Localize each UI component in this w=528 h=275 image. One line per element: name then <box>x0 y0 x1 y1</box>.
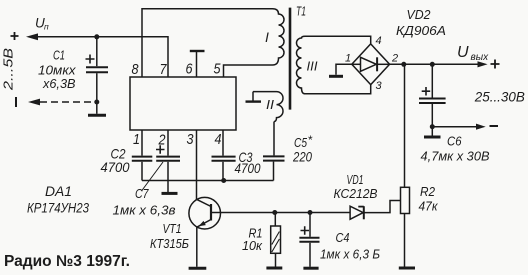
svg-text:10к: 10к <box>242 238 263 253</box>
svg-text:4: 4 <box>376 35 382 47</box>
svg-text:КС212В: КС212В <box>334 186 378 201</box>
svg-text:1мк х 6,3в: 1мк х 6,3в <box>113 203 176 218</box>
svg-text:2...5В: 2...5В <box>1 48 16 92</box>
svg-text:R2: R2 <box>420 184 436 199</box>
svg-text:III: III <box>307 59 318 74</box>
svg-text:С4: С4 <box>336 230 350 245</box>
svg-text:С6: С6 <box>447 134 462 149</box>
svg-text:DA1: DA1 <box>45 183 72 199</box>
svg-text:4: 4 <box>215 131 222 148</box>
svg-text:1мк х 6,3 Б: 1мк х 6,3 Б <box>320 247 380 262</box>
svg-text:КР174УН23: КР174УН23 <box>27 200 89 216</box>
svg-text:С1: С1 <box>53 48 65 63</box>
svg-text:8: 8 <box>132 61 140 78</box>
svg-text:Радио №3 1997г.: Радио №3 1997г. <box>4 253 130 270</box>
svg-text:VT1: VT1 <box>163 221 182 236</box>
svg-text:вых: вых <box>471 52 490 63</box>
svg-text:С7: С7 <box>135 186 149 201</box>
svg-text:х6,3В: х6,3В <box>42 76 76 91</box>
svg-text:220: 220 <box>292 149 312 165</box>
svg-text:*: * <box>308 133 313 147</box>
svg-text:U: U <box>457 44 469 61</box>
svg-text:1: 1 <box>345 53 351 65</box>
svg-text:I: I <box>265 29 269 45</box>
svg-text:47к: 47к <box>419 199 439 214</box>
svg-text:VD2: VD2 <box>407 7 432 22</box>
svg-text:4700: 4700 <box>101 159 130 175</box>
svg-text:КД906А: КД906А <box>396 23 446 38</box>
svg-text:25...30В: 25...30В <box>474 88 525 104</box>
svg-text:2: 2 <box>391 53 398 65</box>
svg-text:II: II <box>266 97 274 112</box>
svg-text:1: 1 <box>133 131 140 148</box>
svg-text:КТ315Б: КТ315Б <box>150 236 189 251</box>
svg-text:Т1: Т1 <box>296 4 306 19</box>
svg-text:2: 2 <box>158 132 166 149</box>
svg-text:7: 7 <box>160 61 168 78</box>
svg-text:5: 5 <box>214 61 222 78</box>
svg-text:4,7мк х 30В: 4,7мк х 30В <box>421 149 490 164</box>
svg-text:VD1: VD1 <box>347 172 364 187</box>
svg-text:3: 3 <box>376 80 383 92</box>
svg-text:6: 6 <box>186 61 194 78</box>
svg-text:4700: 4700 <box>235 160 261 176</box>
svg-text:3: 3 <box>187 131 195 148</box>
svg-text:п: п <box>44 22 49 32</box>
